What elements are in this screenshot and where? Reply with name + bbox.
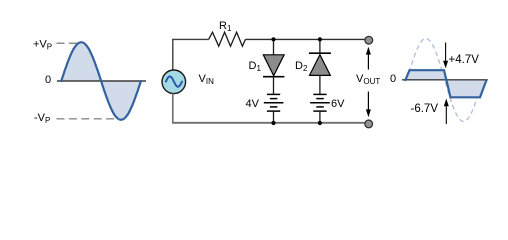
- D1 top lead wire: [273, 39, 275, 55]
- ac source sine symbol: [166, 76, 182, 86]
- svg-text:0: 0: [390, 73, 396, 85]
- -6.7V annotation arrow (up): [445, 105, 447, 125]
- +4.7V annotation arrow (down): [445, 43, 447, 63]
- svg-text:4V: 4V: [246, 98, 260, 110]
- diode D1 cathode bar: [263, 76, 284, 78]
- output waveform zero axis: [402, 79, 488, 81]
- Vout arrow lower (points down): [367, 92, 369, 111]
- junction node bottom D1: [271, 121, 275, 125]
- svg-text:0: 0: [45, 74, 51, 86]
- D2 to battery lead wire: [319, 75, 321, 94]
- clipped output waveform stroke: [405, 70, 487, 97]
- input sine wave stroke: [61, 42, 141, 120]
- junction node bottom D2: [318, 121, 322, 125]
- battery 4V bottom lead wire: [273, 111, 275, 123]
- output terminal bottom: [365, 120, 373, 128]
- D1 to battery lead wire: [273, 77, 275, 95]
- diode D2 triangle: [310, 55, 331, 76]
- wire: resistor to output terminal (top rail): [245, 38, 365, 40]
- wire: source bottom to bottom-left corner: [172, 93, 174, 123]
- battery 6V plates: [310, 94, 330, 111]
- bottom rail wire: [172, 122, 365, 124]
- dashed unclipped sine: [407, 39, 482, 122]
- D2 top lead wire: [319, 39, 321, 53]
- svg-text:6V: 6V: [331, 98, 345, 110]
- input sine wave Vin waveform: [61, 42, 141, 120]
- resistor R1: [209, 32, 246, 46]
- +Vp dashed level line: [57, 42, 80, 44]
- battery 6V bottom lead wire: [319, 111, 321, 123]
- output waveform fill: [405, 70, 487, 97]
- junction node top D2: [318, 37, 322, 41]
- svg-text:+4.7V: +4.7V: [449, 54, 480, 66]
- input waveform zero axis: [57, 80, 146, 82]
- -Vp dashed level line: [57, 118, 120, 120]
- battery 4V plates: [264, 94, 284, 111]
- diode D2 cathode bar: [309, 52, 331, 54]
- Vout arrow upper (points up): [367, 53, 369, 70]
- output terminal top: [365, 36, 373, 44]
- svg-text:-6.7V: -6.7V: [411, 103, 439, 115]
- ac source Vin circle: [162, 70, 186, 94]
- junction node top D1: [271, 37, 275, 41]
- diode D1 triangle: [263, 55, 284, 76]
- wire: source top to top-left corner to resistor: [173, 39, 209, 70]
